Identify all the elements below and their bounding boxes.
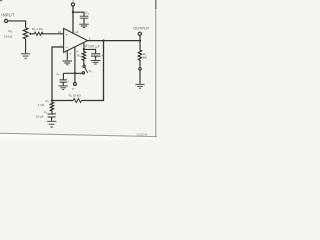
svg-text:+: + (54, 111, 56, 115)
svg-text:+: + (101, 54, 103, 58)
svg-text:V: V (72, 0, 74, 3)
svg-text:RB 1 kΩ: RB 1 kΩ (32, 27, 44, 32)
svg-text:10 kΩ: 10 kΩ (4, 34, 13, 38)
svg-text:INPUT: INPUT (1, 12, 15, 17)
svg-text:R1 10 kΩ: R1 10 kΩ (69, 94, 82, 99)
svg-text:OUTPUT: OUTPUT (133, 27, 150, 31)
svg-text:10 µF: 10 µF (36, 115, 44, 119)
svg-text:14: 14 (75, 30, 79, 34)
svg-text:−: − (66, 45, 69, 50)
svg-text:10: 10 (58, 30, 62, 34)
svg-text:1 kΩ: 1 kΩ (38, 103, 45, 107)
svg-text:+ 100 µF: + 100 µF (85, 44, 100, 48)
svg-text:+: + (67, 80, 69, 84)
